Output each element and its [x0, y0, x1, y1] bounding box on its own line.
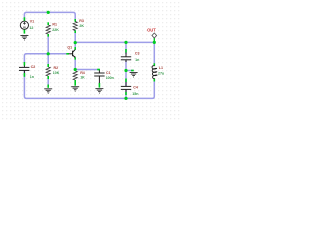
wire base net C2 to Q1 base — [24, 54, 66, 63]
resistor R3 — [74, 19, 76, 22]
svg-text:27u: 27u — [158, 72, 164, 76]
resistor R4 — [74, 80, 76, 86]
svg-text:C1: C1 — [106, 71, 111, 75]
svg-text:R3: R3 — [79, 19, 84, 23]
svg-text:C3: C3 — [135, 52, 140, 56]
wire emitter to R4 and C1 — [75, 58, 99, 70]
wire L1 top drop — [153, 42, 155, 65]
resistor R1 — [47, 22, 49, 25]
node junction emitter / R4 / C1 — [74, 68, 77, 71]
wire C4 bottom — [125, 90, 127, 98]
svg-text:1n: 1n — [135, 58, 139, 62]
svg-text:100n: 100n — [106, 76, 114, 80]
wire C3 top drop — [125, 42, 127, 54]
svg-text:12: 12 — [29, 26, 33, 30]
svg-text:R1: R1 — [52, 23, 57, 27]
ground at C3/C4 midpoint — [131, 70, 134, 72]
inductor L1 — [153, 63, 155, 66]
wire R2 top — [47, 54, 49, 64]
wire stub to ground at C3/C4 node — [126, 70, 134, 72]
svg-text:10K: 10K — [53, 71, 60, 75]
node junction top rail / R1 — [47, 11, 50, 14]
capacitor C4 — [125, 79, 127, 83]
wire C3 C4 middle — [125, 61, 127, 87]
svg-text:R4: R4 — [80, 71, 85, 75]
svg-text:22K: 22K — [52, 28, 59, 32]
transistor Q1 — [66, 47, 75, 60]
svg-text:2K: 2K — [79, 24, 84, 28]
resistor R2 — [47, 64, 49, 67]
node junction OUT marker / L1 — [153, 41, 156, 44]
wire R1 bottom to base junction — [47, 35, 49, 55]
svg-text:Q1: Q1 — [67, 46, 72, 50]
node junction base / R1 / R2 / C2 — [47, 52, 50, 55]
node junction C3 top / OUT rail — [124, 41, 127, 44]
node junction collector / R3 / OUT rail — [74, 41, 77, 44]
wire R3 bottom to collector — [74, 30, 76, 48]
ground below R2 — [44, 89, 52, 94]
svg-text:V1: V1 — [30, 19, 34, 23]
ground below R4 — [71, 87, 79, 92]
capacitor C1 — [98, 70, 100, 74]
node junction C3 / C4 / ground — [124, 69, 127, 72]
svg-text:1K: 1K — [80, 76, 85, 80]
svg-text:R2: R2 — [54, 66, 59, 70]
svg-text:C4: C4 — [133, 85, 138, 89]
capacitor C3 — [125, 49, 127, 53]
wire bottom rail C2 to L1 — [24, 71, 154, 99]
wire top rail V1 to R3 — [24, 12, 75, 20]
svg-text:OUT: OUT — [147, 28, 156, 33]
voltage source V1 — [20, 17, 28, 33]
node junction C4 / bottom rail — [124, 97, 127, 100]
capacitor C2 — [23, 62, 25, 66]
ground below V1 — [20, 36, 28, 41]
OUT net marker — [152, 33, 157, 41]
wire collector rail to OUT and L1 — [75, 41, 154, 43]
svg-text:L1: L1 — [159, 66, 163, 70]
svg-text:C2: C2 — [31, 65, 36, 69]
svg-text:1n: 1n — [30, 75, 34, 79]
svg-text:15n: 15n — [132, 92, 138, 96]
ground below C1 — [95, 89, 103, 94]
